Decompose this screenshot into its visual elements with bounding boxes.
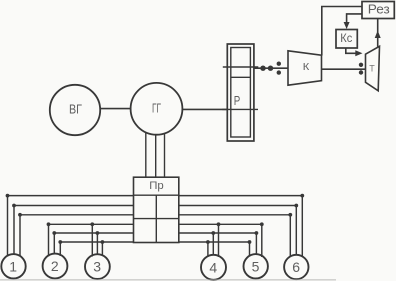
svg-text:1: 1 xyxy=(9,258,17,274)
svg-text:ГГ: ГГ xyxy=(152,101,161,116)
svg-text:3: 3 xyxy=(93,259,101,275)
svg-text:Кс: Кс xyxy=(340,31,352,45)
svg-text:Пр: Пр xyxy=(149,180,164,192)
svg-text:К: К xyxy=(303,61,310,73)
svg-text:4: 4 xyxy=(209,259,217,275)
svg-text:6: 6 xyxy=(292,259,300,275)
svg-text:Т: Т xyxy=(369,63,375,73)
svg-text:ВГ: ВГ xyxy=(69,102,82,117)
svg-text:2: 2 xyxy=(51,258,59,274)
svg-text:Р: Р xyxy=(234,93,241,108)
svg-text:5: 5 xyxy=(252,258,260,274)
svg-text:Рез: Рез xyxy=(368,2,390,16)
